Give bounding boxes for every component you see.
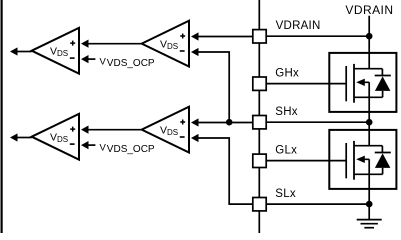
svg-text:VDS_OCP: VDS_OCP: [107, 144, 155, 155]
svg-text:VDRAIN: VDRAIN: [276, 20, 321, 32]
svg-text:SHx: SHx: [275, 106, 297, 118]
svg-text:V: V: [100, 143, 107, 154]
svg-text:VDS_OCP: VDS_OCP: [107, 58, 155, 69]
svg-text:SLx: SLx: [275, 188, 296, 200]
svg-text:VDRAIN: VDRAIN: [345, 3, 393, 17]
svg-text:V: V: [100, 57, 107, 68]
svg-text:GLx: GLx: [275, 144, 297, 156]
svg-text:GHx: GHx: [275, 67, 299, 79]
